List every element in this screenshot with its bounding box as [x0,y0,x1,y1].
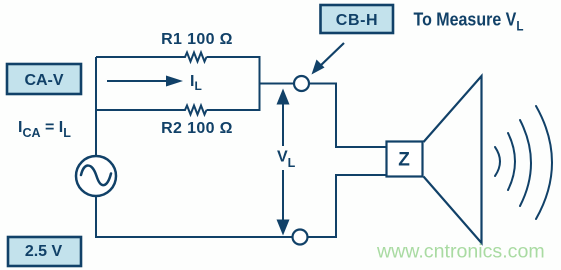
svg-text:CB-H: CB-H [336,12,378,29]
wire from top node to Z box [309,84,387,148]
wire from bottom node to Z box [308,175,387,237]
node top (probe point) [294,76,309,91]
wire top rung left [96,56,184,58]
VL measurement double arrow [277,89,290,236]
wire left vertical (source to resistor loop) [95,57,97,156]
svg-text:VL: VL [277,149,296,171]
speaker cone [424,76,482,243]
svg-text:Z: Z [398,150,410,171]
box CA-V [7,64,81,94]
resistor R2 [183,106,207,115]
sound wave arcs [495,106,552,219]
svg-text:R2 100 Ω: R2 100 Ω [161,120,233,137]
wire right edge of resistor loop [259,56,261,111]
wire middle output to node [260,83,295,85]
wire bottom rail [95,236,293,238]
impedance Z box [387,142,423,177]
wire bottom rung left [96,109,184,111]
wire bottom rung right [207,109,260,111]
node bottom [293,230,308,245]
svg-text:IL: IL [190,73,202,93]
box 2.5 V [8,237,81,266]
svg-text:R1 100 Ω: R1 100 Ω [161,31,233,48]
voltage source V1 (2.5 V sine) circle [76,156,116,196]
arrow from CB-H to node [312,43,345,75]
svg-text:2.5 V: 2.5 V [25,243,63,260]
box CB-H [321,5,394,33]
svg-text:To Measure VL: To Measure VL [414,9,524,34]
voltage source V1 sine symbol [81,166,111,186]
current arrow IL [107,76,183,87]
wire left vertical (source to bottom rail) [95,197,97,238]
wire top rung right [207,56,260,58]
resistor R1 [183,53,207,62]
svg-text:www.cntronics.com: www.cntronics.com [376,241,545,263]
svg-text:ICA = IL: ICA = IL [18,119,71,140]
svg-text:CA-V: CA-V [24,72,63,89]
